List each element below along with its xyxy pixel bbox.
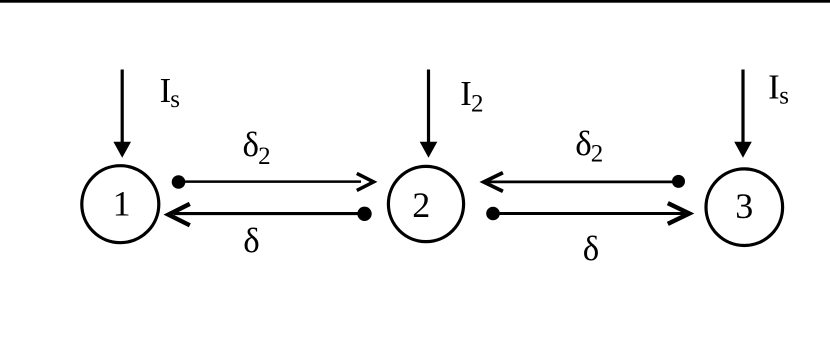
svg-text:s: s	[779, 83, 789, 110]
svg-text:I: I	[768, 69, 780, 107]
svg-text:s: s	[170, 86, 180, 113]
node 1	[82, 166, 159, 243]
label I_s (right)	[768, 69, 789, 110]
arrival arrow I_s into node 3	[734, 70, 752, 158]
svg-text:2: 2	[258, 143, 271, 170]
label delta_2 (left)	[243, 125, 271, 170]
transition arrow 2 to 1 (rate delta)	[168, 204, 371, 225]
top border rule	[0, 0, 830, 3]
arrival arrow I_2 into node 2	[420, 70, 438, 158]
node 3	[706, 169, 783, 246]
svg-text:2: 2	[591, 140, 604, 167]
svg-text:δ: δ	[583, 229, 600, 268]
label I_2	[460, 75, 483, 117]
svg-text:3: 3	[735, 186, 753, 226]
transition arrow 1 to 2 (rate delta_2)	[172, 173, 374, 190]
svg-text:2: 2	[471, 90, 484, 117]
transition arrow 2 to 3 (rate delta)	[486, 203, 689, 224]
svg-text:1: 1	[113, 184, 131, 224]
transition arrow 3 to 2 (rate delta_2)	[484, 173, 685, 192]
arrival arrow I_s into node 1	[113, 70, 131, 158]
label I_s (left)	[160, 72, 180, 113]
svg-text:δ: δ	[575, 124, 592, 163]
svg-text:δ: δ	[243, 125, 260, 164]
node 2	[388, 166, 463, 241]
svg-text:2: 2	[412, 185, 430, 225]
label delta_2 (right)	[575, 124, 603, 167]
svg-text:δ: δ	[243, 221, 259, 260]
